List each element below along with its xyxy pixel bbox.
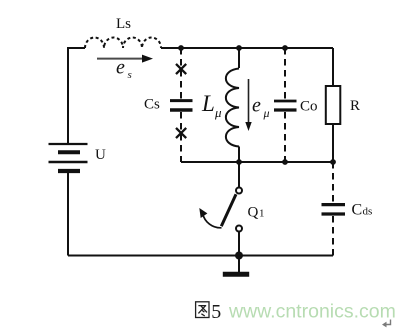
ground <box>223 256 249 275</box>
capacitor Co <box>274 48 297 162</box>
node dot G (ground node) <box>235 252 243 260</box>
svg-text:s: s <box>128 69 132 81</box>
breakage mark X1 on Cs branch <box>176 64 186 74</box>
svg-text:ds: ds <box>363 206 373 218</box>
svg-text:Ls: Ls <box>116 16 131 32</box>
svg-text:Q: Q <box>248 205 259 221</box>
svg-text:L: L <box>201 91 215 116</box>
node dot B (top, Lmu) <box>236 45 242 51</box>
inductor Lmu <box>226 69 239 147</box>
wire <box>68 48 85 144</box>
svg-text:U: U <box>95 147 106 163</box>
switch rotation arrow <box>199 208 221 228</box>
wire <box>238 147 240 163</box>
wire <box>181 161 333 163</box>
node dot E (bottom rail, Co) <box>282 159 288 165</box>
node dot D (bottom rail, Lmu) <box>236 159 242 165</box>
switch Q1 <box>221 162 242 256</box>
node dot A (top, Cs) <box>178 45 184 51</box>
svg-text:R: R <box>350 98 360 114</box>
svg-text:μ: μ <box>263 106 270 120</box>
breakage mark X2 on Cs branch <box>176 128 186 138</box>
svg-text:5: 5 <box>211 301 221 323</box>
wire <box>332 48 334 86</box>
wire <box>238 48 240 68</box>
svg-text:μ: μ <box>214 105 222 120</box>
svg-text:e: e <box>252 95 261 117</box>
return mark <box>382 320 391 328</box>
wire <box>68 255 333 257</box>
svg-text:www.cntronics.com: www.cntronics.com <box>228 301 396 323</box>
svg-text:C: C <box>352 202 363 219</box>
svg-text:Co: Co <box>300 99 318 115</box>
arrow e_s <box>97 55 153 63</box>
wire <box>161 47 333 49</box>
node dot C (top, Co) <box>282 45 288 51</box>
capacitor Cs <box>170 48 193 162</box>
inductor Ls <box>85 38 161 48</box>
wire <box>332 124 334 162</box>
resistor R <box>326 86 341 124</box>
svg-text:e: e <box>116 57 125 79</box>
capacitor Cds <box>322 162 346 256</box>
svg-text:Cs: Cs <box>144 97 160 113</box>
caption fig5 glyph tu <box>196 302 209 318</box>
battery U <box>49 144 88 256</box>
arrow e_mu <box>245 79 251 131</box>
svg-text:1: 1 <box>259 208 265 220</box>
node dot F (bottom rail, R) <box>330 159 336 165</box>
